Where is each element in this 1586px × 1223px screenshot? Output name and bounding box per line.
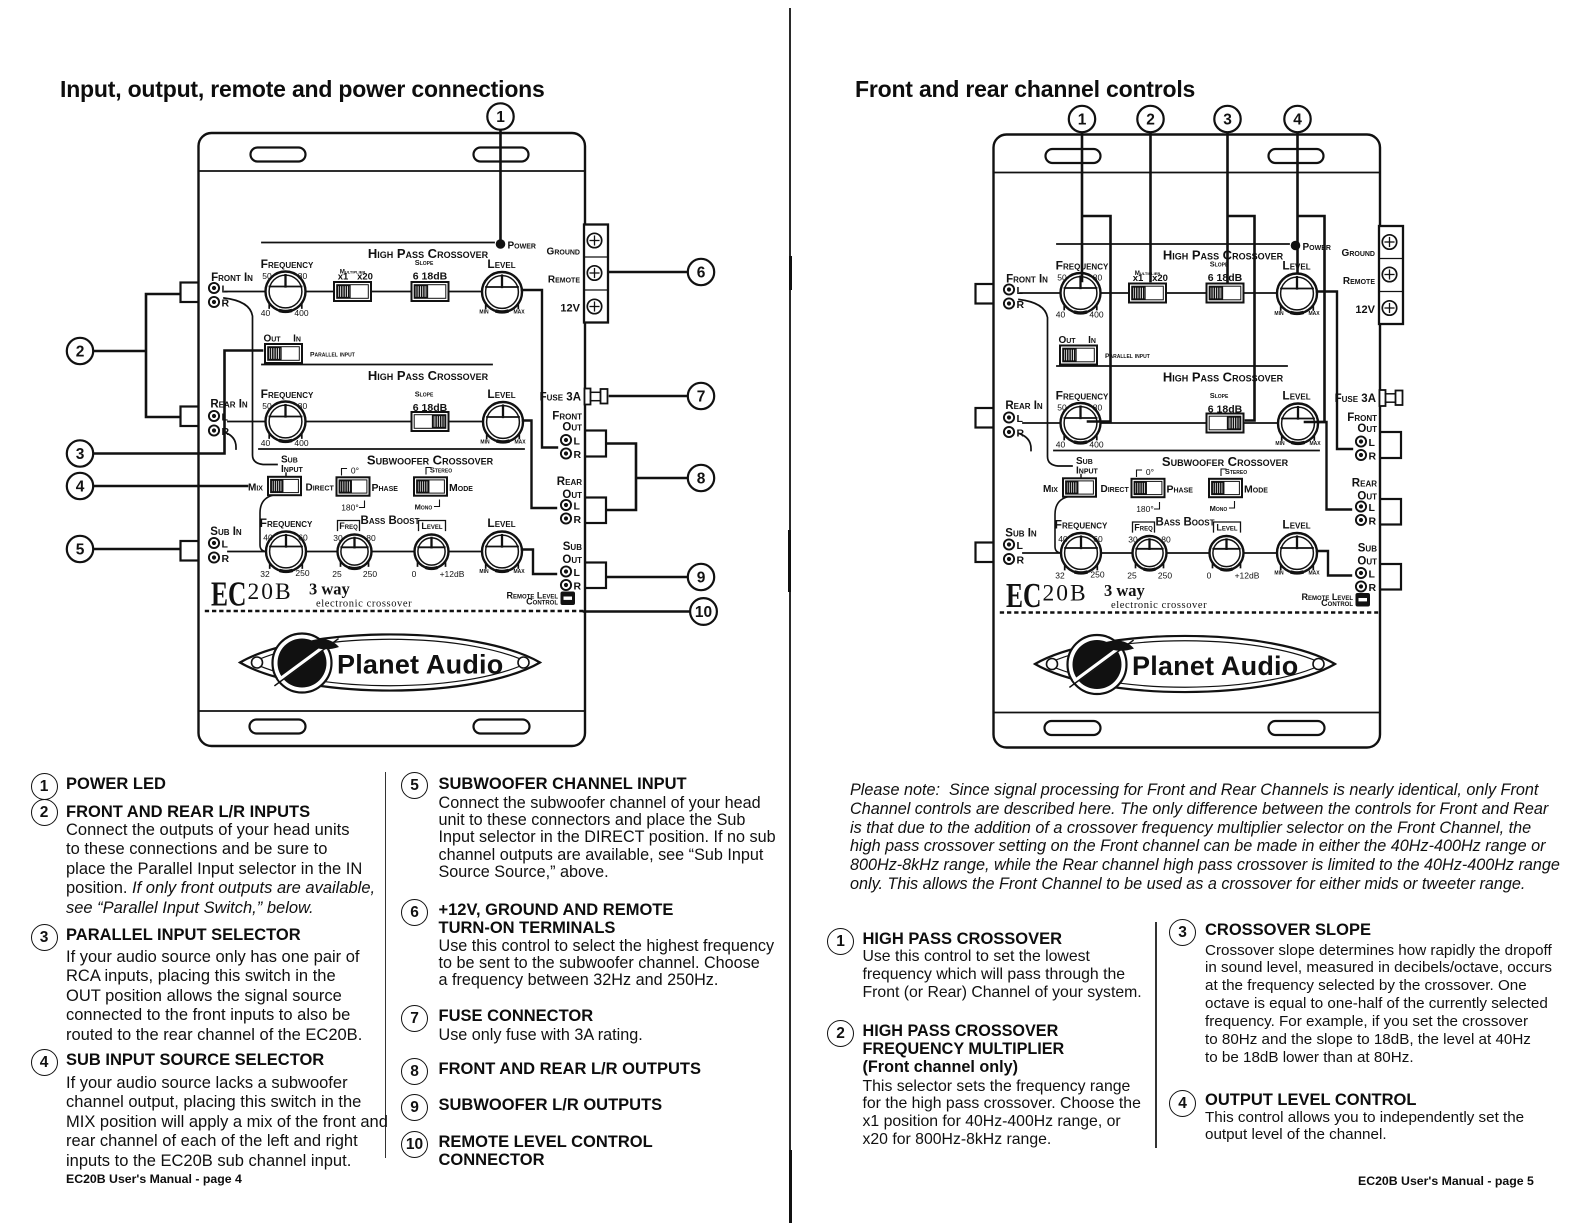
page divider line [789,8,791,1223]
left page title [60,76,545,103]
svg-text:1: 1 [1078,112,1087,129]
callout 4 sub input source selector [67,473,247,499]
svg-text:8: 8 [697,471,706,488]
right page title [855,76,1195,103]
callout 5 sub in [67,536,180,562]
callout 9 sub outputs [607,564,714,590]
callout 10 remote level connector [584,598,717,625]
svg-text:2: 2 [76,344,85,361]
svg-text:7: 7 [697,389,706,406]
callout 2 frequency multiplier [1137,106,1163,281]
callout 4 output level control [1284,106,1324,422]
page 4 callouts [67,103,717,625]
callout 7 fuse [610,383,714,409]
callout 1 power led [487,103,513,239]
svg-text:3: 3 [1223,112,1232,129]
page 5 callouts [1069,106,1325,422]
callout 3 parallel input selector [67,351,262,467]
callout 1 high pass crossover [1069,106,1111,422]
svg-text:6: 6 [697,265,706,282]
svg-text:2: 2 [1146,112,1155,129]
callout 6 terminals [609,259,714,285]
svg-text:1: 1 [496,109,505,126]
callout 3 crossover slope [1214,106,1254,421]
callout 8 front and rear outputs [607,444,714,511]
svg-text:4: 4 [1293,112,1302,129]
svg-text:9: 9 [697,570,706,587]
device faceplate page 4 [181,133,609,746]
column divider [385,772,387,1158]
svg-text:3: 3 [76,446,85,463]
svg-text:10: 10 [695,604,712,621]
device faceplate page 5 [976,135,1404,748]
callout 2 front and rear inputs [67,294,180,417]
svg-text:5: 5 [76,542,85,559]
svg-text:4: 4 [76,479,85,496]
